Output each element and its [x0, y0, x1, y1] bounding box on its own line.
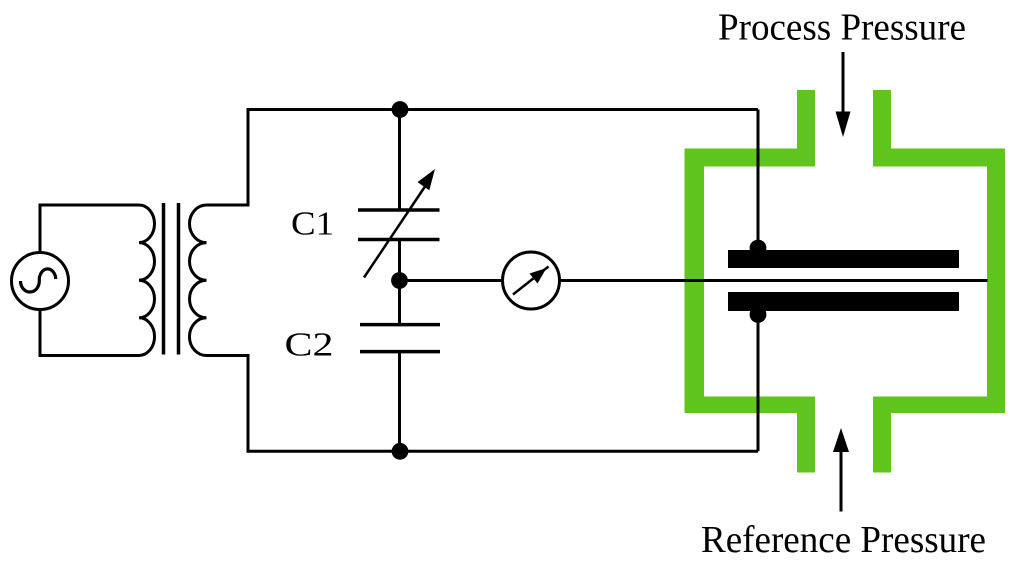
node top junction [392, 101, 409, 118]
wire bottom plate to bottom rail [757, 310, 760, 451]
capacitor C1 bottom plate [358, 238, 440, 242]
meter M1 [503, 252, 560, 309]
reference port left stub [797, 412, 815, 473]
node middle junction [391, 272, 408, 289]
node top plate junction [750, 240, 767, 257]
process port right stub [873, 90, 891, 150]
wire source top to primary [40, 205, 139, 254]
transformer T1 primary winding [139, 205, 155, 356]
wire middle rail to sensor [400, 279, 988, 282]
wire C2 to bottom rail [398, 352, 401, 452]
sensor housing bottom band right segment [873, 397, 1005, 414]
svg-text:Reference Pressure: Reference Pressure [701, 519, 986, 561]
sensor electrode bottom plate [728, 292, 959, 311]
process port left stub [797, 90, 815, 150]
wire middle node to C2 [398, 281, 401, 325]
sensor housing top band left segment [685, 149, 816, 167]
capacitor C1 variable arrow [364, 181, 429, 278]
wire C1 to middle node [398, 240, 401, 281]
sensor housing right wall [987, 149, 1005, 414]
sensor housing bottom band left segment [685, 397, 816, 414]
sensor housing left wall [685, 149, 705, 414]
sensor housing top band right segment [873, 149, 1005, 167]
svg-text:Process Pressure: Process Pressure [718, 7, 966, 49]
wire top rail to C1 [398, 110, 401, 211]
node bottom junction [392, 443, 409, 460]
reference pressure arrow [840, 450, 843, 512]
transformer T1 core [162, 203, 166, 355]
wire primary bottom to source [40, 309, 139, 356]
transformer T1 secondary winding [189, 205, 206, 356]
AC source V1 [12, 253, 69, 310]
process pressure arrow [842, 52, 845, 114]
svg-text:C2: C2 [285, 327, 334, 364]
svg-text:C1: C1 [291, 206, 334, 243]
wire right vertical to top plate [757, 110, 760, 252]
capacitor C1 top plate [358, 208, 440, 212]
capacitor C2 bottom plate [360, 350, 440, 354]
capacitor C2 top plate [360, 323, 440, 327]
node bottom plate junction [750, 306, 767, 323]
sensor electrode top plate [728, 250, 959, 268]
wire secondary top and top rail [207, 110, 759, 206]
reference port right stub [873, 412, 891, 473]
wire secondary bottom and bottom rail [207, 356, 759, 452]
